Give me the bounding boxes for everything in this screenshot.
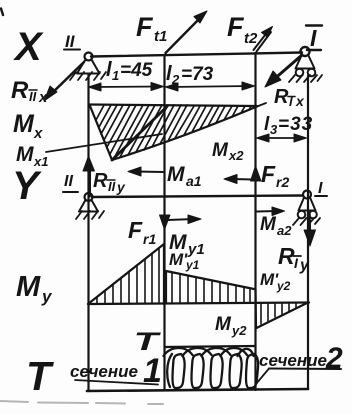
svg-text:сечение: сечение [259, 351, 327, 370]
Mx diagram outline [89, 103, 266, 160]
label M'y2 [260, 270, 291, 293]
svg-text:R: R [11, 77, 29, 104]
svg-text:R: R [93, 170, 108, 192]
svg-text:II: II [29, 89, 37, 104]
label F_t1 [136, 12, 167, 45]
svg-text:2: 2 [325, 342, 343, 375]
support II pin (X view) [70, 53, 106, 81]
svg-text:M: M [16, 143, 34, 166]
label My [16, 271, 53, 306]
label Mx [13, 110, 43, 142]
svg-text:M: M [212, 140, 229, 161]
wire vertical right main line [307, 76, 309, 389]
svg-text:r1: r1 [143, 231, 156, 247]
wire Y-view shaft beam [92, 196, 303, 198]
wire vertical section-1 line [163, 55, 165, 390]
label II (left support, X view) [64, 32, 80, 51]
label l2=73 [166, 63, 214, 87]
label Ma1 [167, 163, 202, 189]
svg-text:F: F [261, 161, 276, 187]
svg-text:a1: a1 [186, 173, 202, 189]
label Mx1 [16, 143, 48, 169]
svg-text:F: F [128, 217, 143, 243]
label My2 [215, 314, 247, 338]
label l3=33 [264, 114, 313, 137]
svg-text:M: M [16, 271, 41, 303]
svg-text:сечение: сечение [70, 362, 138, 381]
label II (left support, Y view) [63, 173, 78, 192]
label I (right support, X view) [306, 25, 322, 51]
svg-text:I: I [318, 180, 323, 197]
wire bottom border line [87, 389, 308, 391]
svg-text:R: R [274, 86, 289, 108]
svg-text:y: y [299, 257, 310, 274]
svg-text:y1: y1 [187, 241, 205, 258]
torque T box [165, 346, 256, 347]
support II pin (Y view) [76, 193, 104, 219]
svg-text:y2: y2 [276, 279, 291, 293]
сечение2 leader [256, 369, 269, 385]
reaction R_IIx arrow [44, 62, 84, 101]
My triangle (left span) outline [88, 244, 164, 304]
axial arrow left at section 2 [224, 175, 253, 184]
label I (right support, Y view) [315, 180, 327, 197]
force Fr1 arrow (down at section 1) [160, 215, 171, 230]
svg-text:F: F [136, 12, 154, 42]
reaction R_IIy arrow (up, on left line) [83, 156, 95, 196]
svg-text:M: M [260, 214, 277, 235]
svg-text:3: 3 [270, 122, 278, 137]
page artifact bottom faint dashes [0, 401, 163, 404]
label R_IIy [93, 170, 126, 195]
support I pin with rollers (X view) [289, 47, 322, 82]
label Fr2 [261, 161, 289, 190]
wire vertical section-2 line [254, 53, 256, 390]
moment Ma1 arrow (left at section 1) [128, 167, 163, 176]
сечение1 leader underline [75, 380, 158, 385]
dimension l3 line with arrowheads [257, 134, 307, 142]
svg-text:t1: t1 [154, 28, 167, 45]
svg-text:II: II [65, 32, 76, 51]
label M'y1 [169, 250, 200, 272]
force F_t1 arrow [166, 11, 208, 53]
label My1 [169, 231, 205, 258]
label Fr1 [128, 217, 156, 247]
svg-text:y: y [41, 287, 53, 306]
My' band (middle span) outline [166, 271, 254, 303]
svg-text:=33: =33 [278, 114, 313, 135]
svg-text:=73: =73 [181, 64, 214, 85]
My2 triangle hatching [261, 304, 296, 325]
support I pin with rollers (Y view) [293, 191, 320, 226]
svg-text:1: 1 [112, 68, 119, 83]
svg-text:y2: y2 [231, 323, 247, 338]
My2 jump line at section 2 [254, 289, 257, 328]
axial arrow right at section 1 [168, 215, 201, 224]
svg-text:II: II [108, 179, 116, 194]
Mx diagram hatching [96, 105, 251, 160]
reaction R_Ix arrow [265, 55, 302, 87]
svg-text:x: x [295, 93, 305, 109]
svg-text:t2: t2 [244, 30, 258, 47]
svg-text:I: I [294, 255, 299, 271]
label сечение2 [259, 342, 343, 375]
svg-text:x2: x2 [228, 148, 244, 163]
svg-text:1: 1 [143, 352, 162, 390]
svg-text:F: F [227, 12, 245, 42]
Mx1 pointer line [46, 134, 162, 152]
svg-text:y1: y1 [185, 258, 200, 272]
My2 triangle (below axis) outline [257, 303, 309, 329]
svg-text:2: 2 [171, 72, 180, 87]
My triangle hatching [97, 248, 159, 303]
label сечение1 [70, 352, 162, 390]
svg-text:I: I [310, 25, 317, 51]
reaction R_Iy arrow (down, bold) [304, 212, 316, 246]
label Mx2 [212, 140, 244, 163]
label R_Iy [278, 243, 310, 274]
svg-text:y: y [116, 179, 126, 195]
torque coil scribble [164, 348, 259, 388]
My' band hatching [172, 273, 250, 303]
My axis line [88, 303, 309, 305]
force F_t2 arrow (double stroke) [254, 27, 273, 52]
svg-text:II: II [64, 173, 73, 190]
dimension l1 line with arrowheads [89, 83, 164, 92]
svg-text:a2: a2 [277, 223, 292, 238]
page artifact top-left tick [1, 9, 3, 16]
svg-text:x: x [38, 89, 48, 106]
dimension l2 line with arrowheads [166, 82, 255, 91]
svg-text:r2: r2 [276, 174, 289, 190]
сечение2 underline [269, 368, 341, 371]
label l1=45 [106, 59, 153, 83]
label R_Ix [274, 86, 305, 109]
svg-text:T: T [26, 353, 54, 399]
svg-text:M: M [167, 163, 185, 186]
svg-text:=45: =45 [120, 60, 153, 81]
svg-text:x: x [33, 125, 43, 142]
wire X-view shaft beam [91, 53, 302, 57]
svg-text:M: M [215, 314, 232, 335]
moment Ma2 arrow (right at section 2) [257, 207, 285, 216]
force Fr2 arrow (up at section 2) [251, 166, 262, 181]
label Ma2 [260, 214, 292, 238]
wire vertical left main line [87, 74, 89, 390]
svg-text:M: M [13, 110, 35, 138]
label R_IIx [11, 77, 48, 106]
svg-text:Y: Y [12, 164, 42, 208]
label F_t2 [227, 12, 258, 47]
svg-text:X: X [13, 25, 44, 69]
